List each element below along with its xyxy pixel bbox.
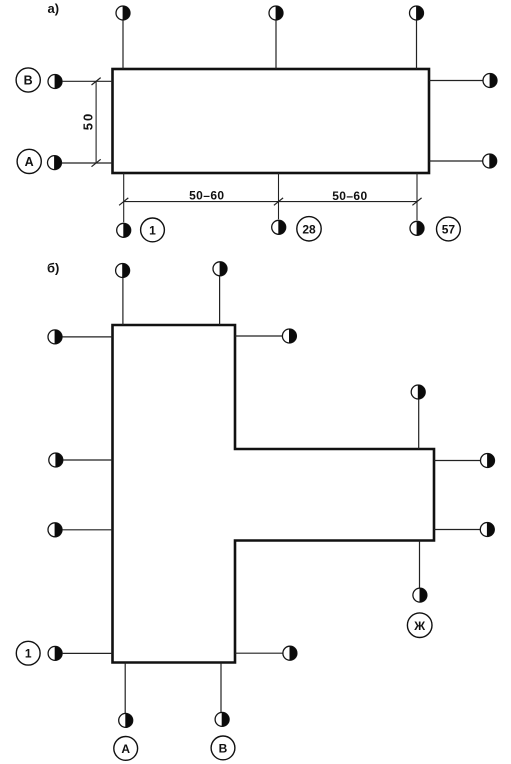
node Zh label circle bbox=[407, 613, 432, 638]
value label 50-60 left bbox=[189, 189, 224, 203]
wire stem b bottom-right side bbox=[235, 652, 283, 654]
node B2 label circle bbox=[211, 736, 235, 760]
value label 50-60 right bbox=[332, 189, 367, 203]
marker T1 bbox=[116, 6, 130, 20]
node 1 label circle bbox=[141, 218, 165, 242]
marker WB1 bbox=[413, 588, 427, 602]
svg-text:28: 28 bbox=[302, 222, 316, 236]
marker R2 bbox=[483, 154, 497, 168]
extension line bottom-right bbox=[416, 173, 418, 220]
marker L2 bbox=[48, 156, 62, 170]
wire stem b left-1 bbox=[62, 336, 113, 338]
marker BB2 bbox=[215, 712, 229, 726]
marker BBL1 bbox=[48, 646, 62, 660]
marker B3 bbox=[410, 221, 424, 235]
wire stem right-top bbox=[429, 80, 483, 82]
building outline figure a bbox=[113, 69, 430, 173]
wire stem wing top bbox=[418, 399, 420, 449]
wire stem b left-3 bbox=[62, 529, 113, 531]
marker BB1 bbox=[119, 713, 133, 727]
marker BR1 bbox=[282, 329, 296, 343]
extension line bottom-left bbox=[123, 173, 125, 222]
wire stem b bottom-2 bbox=[220, 663, 222, 713]
node 1b label circle bbox=[16, 641, 40, 665]
wire stem wing right-bottom bbox=[434, 529, 480, 531]
marker B2 bbox=[272, 220, 286, 234]
marker L1 bbox=[48, 75, 62, 89]
building outline figure b (T-shape) bbox=[113, 325, 435, 663]
wire stem wing right-top bbox=[434, 460, 481, 462]
marker WR2 bbox=[480, 523, 494, 537]
marker BL1 bbox=[48, 330, 62, 344]
svg-text:б): б) bbox=[47, 261, 59, 276]
dimension line 50 vertical with ticks bbox=[92, 78, 101, 167]
svg-text:1: 1 bbox=[149, 223, 156, 237]
wire stem b upper-right bbox=[235, 335, 282, 337]
wire stem left-bottom bbox=[62, 162, 113, 164]
figure caption b) bbox=[47, 261, 59, 276]
svg-text:50: 50 bbox=[81, 112, 96, 130]
marker BT1 bbox=[116, 264, 130, 278]
wire stem b bottom-left side bbox=[62, 652, 112, 654]
wire stem b bottom-1 bbox=[124, 663, 126, 714]
marker R1 bbox=[483, 74, 497, 88]
node A2 label circle bbox=[114, 737, 138, 761]
marker BT2 bbox=[213, 262, 227, 276]
wire stem b top-left bbox=[122, 277, 124, 325]
wire stem b top-right bbox=[219, 276, 221, 326]
marker T3 bbox=[410, 6, 424, 20]
wire stem right-bottom bbox=[429, 160, 483, 162]
wire stem left-top bbox=[62, 80, 113, 82]
svg-text:1: 1 bbox=[25, 647, 32, 661]
wire stem top-left bbox=[122, 20, 124, 69]
svg-text:50–60: 50–60 bbox=[332, 189, 367, 203]
marker T2 bbox=[269, 6, 283, 20]
marker BBR1 bbox=[283, 646, 297, 660]
svg-text:В: В bbox=[24, 74, 33, 88]
svg-text:50–60: 50–60 bbox=[189, 189, 224, 203]
wire stem wing bottom bbox=[419, 541, 421, 589]
marker B1 bbox=[117, 223, 131, 237]
wire stem top-right bbox=[416, 20, 418, 69]
dimension line 50-60 horizontal with ticks bbox=[119, 198, 422, 205]
svg-text:В: В bbox=[219, 742, 228, 756]
marker BL3 bbox=[48, 523, 62, 537]
node 57 label circle bbox=[437, 217, 461, 241]
marker WT1 bbox=[411, 385, 425, 399]
marker WR1 bbox=[481, 454, 495, 468]
node 28 label circle bbox=[297, 217, 321, 241]
node B label circle bbox=[16, 68, 40, 92]
value label 50 bbox=[81, 112, 96, 130]
svg-text:57: 57 bbox=[442, 223, 456, 237]
svg-text:А: А bbox=[121, 742, 130, 756]
svg-text:Ж: Ж bbox=[413, 619, 425, 633]
svg-text:а): а) bbox=[48, 1, 60, 16]
figure caption a) bbox=[48, 1, 60, 16]
wire stem b left-2 bbox=[63, 459, 113, 461]
extension line bottom-middle bbox=[278, 173, 280, 219]
node A label circle bbox=[17, 149, 41, 173]
svg-text:А: А bbox=[25, 155, 34, 169]
marker BL2 bbox=[49, 453, 63, 467]
wire stem top-middle bbox=[275, 20, 277, 69]
